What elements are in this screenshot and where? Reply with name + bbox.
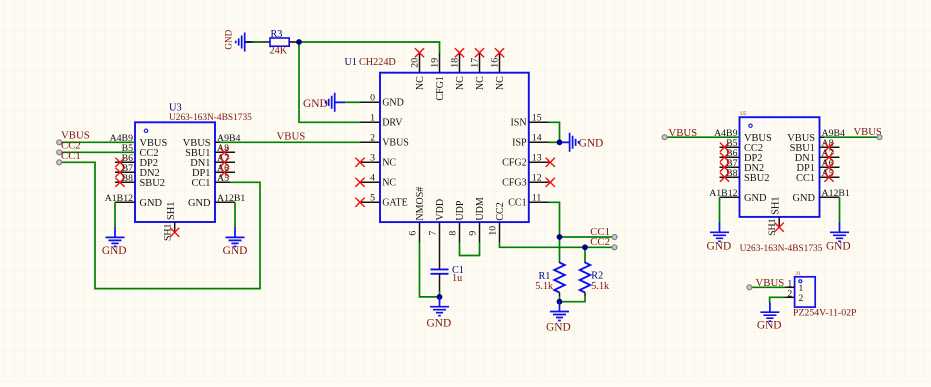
pin B8 SBU2 bbox=[115, 173, 165, 189]
svg-text:NC: NC bbox=[495, 76, 506, 90]
pin A4B9 VBUS bbox=[110, 133, 168, 149]
svg-text:A12B1: A12B1 bbox=[822, 188, 850, 199]
pin 0 GND bbox=[360, 93, 404, 109]
pin 19 CFG1 (top) bbox=[429, 53, 446, 101]
svg-text:VBUS: VBUS bbox=[277, 130, 306, 142]
wire (ISP to ground) bbox=[549, 141, 561, 143]
ground (below C1) bbox=[427, 297, 452, 330]
pin B8 SBU2 bbox=[720, 168, 770, 184]
pin B6 DP2 bbox=[115, 153, 158, 169]
ground (below R1 R2) bbox=[546, 302, 571, 334]
pin A5 CC1 bbox=[796, 168, 840, 184]
ground (U3 right) bbox=[223, 227, 248, 257]
svg-text:A5: A5 bbox=[217, 173, 229, 184]
pin 1 (J1) bbox=[785, 278, 804, 293]
pin 1 DRV bbox=[360, 113, 403, 129]
svg-text:SH1: SH1 bbox=[767, 218, 778, 236]
svg-text:12: 12 bbox=[532, 173, 542, 184]
wire (U5 A12B1 to ground) bbox=[839, 197, 841, 222]
wire (U3 A1B12 to ground) bbox=[114, 202, 116, 227]
svg-text:GATE: GATE bbox=[382, 198, 408, 209]
pin 8 UDP (bottom) bbox=[448, 200, 466, 242]
usb-c connector body U5 bbox=[740, 117, 820, 217]
node VBUS (J1) bbox=[756, 277, 785, 289]
svg-text:R3: R3 bbox=[271, 29, 283, 40]
wire (CC1 to port) bbox=[560, 236, 615, 238]
node VBUS (U5 left) bbox=[668, 127, 697, 139]
ground (U5 left) bbox=[707, 222, 732, 252]
svg-text:DRV: DRV bbox=[382, 118, 403, 129]
svg-text:3: 3 bbox=[370, 153, 375, 164]
svg-text:SBU2: SBU2 bbox=[744, 173, 769, 184]
svg-text:UDM: UDM bbox=[475, 197, 486, 220]
wire (pin 6 to ground node) bbox=[420, 242, 440, 297]
svg-text:GND: GND bbox=[744, 193, 767, 204]
pin A6 DP1 bbox=[192, 163, 235, 179]
pin 20 NC (top) bbox=[409, 48, 426, 90]
svg-text:GND: GND bbox=[826, 240, 851, 252]
svg-text:GND: GND bbox=[224, 29, 234, 49]
svg-text:7: 7 bbox=[428, 231, 439, 236]
wire (ground to pin 0) bbox=[345, 101, 360, 103]
label J1 (tiny) bbox=[796, 272, 801, 277]
svg-text:NC: NC bbox=[415, 76, 426, 90]
pin SH1 shield bbox=[767, 196, 784, 235]
svg-text:U1: U1 bbox=[345, 57, 357, 68]
junction (R1/R2 ground) bbox=[557, 299, 563, 305]
value PZ254V-11-02P bbox=[793, 307, 857, 318]
wire (R2 top lead) bbox=[584, 247, 586, 261]
wire (VBUS to U3) bbox=[57, 140, 135, 145]
wire (ISN to ISP node) bbox=[549, 122, 560, 142]
svg-text:CC2: CC2 bbox=[495, 202, 506, 220]
svg-text:SH1: SH1 bbox=[163, 223, 174, 241]
node CC1 (right) bbox=[590, 226, 617, 240]
svg-text:SH1: SH1 bbox=[166, 202, 177, 220]
svg-text:A12B1: A12B1 bbox=[217, 193, 245, 204]
svg-text:CC1: CC1 bbox=[191, 178, 210, 189]
ground (U5 right) bbox=[826, 222, 851, 252]
svg-text:A1B12: A1B12 bbox=[105, 193, 133, 204]
svg-text:SBU2: SBU2 bbox=[140, 178, 165, 189]
svg-text:NMOS#: NMOS# bbox=[415, 187, 426, 221]
wire (U5 right VBUS to port) bbox=[824, 135, 882, 140]
ground (at U1 pin 0) bbox=[303, 93, 345, 112]
pin A12B1 GND bbox=[188, 193, 245, 209]
svg-text:13: 13 bbox=[532, 153, 542, 164]
pin A7 DN1 bbox=[795, 148, 840, 164]
svg-text:CC1: CC1 bbox=[61, 150, 81, 162]
svg-text:GND: GND bbox=[382, 98, 404, 109]
svg-text:A1B12: A1B12 bbox=[709, 188, 737, 199]
svg-text:0: 0 bbox=[370, 93, 375, 104]
svg-text:1: 1 bbox=[370, 113, 375, 124]
node CC2 (right) bbox=[590, 236, 617, 250]
label C1 bbox=[452, 265, 464, 276]
pin 17 NC (top) bbox=[469, 48, 486, 90]
pin B7 DN2 bbox=[720, 158, 765, 174]
pin B5 CC2 bbox=[720, 138, 764, 154]
value CH224D bbox=[359, 57, 396, 68]
svg-text:2: 2 bbox=[799, 293, 804, 304]
svg-text:GND: GND bbox=[188, 198, 211, 209]
pin A8 SBU1 bbox=[185, 143, 235, 159]
pin 11 CC1 bbox=[508, 193, 549, 209]
ground (ISP, right-pointing) bbox=[560, 133, 604, 152]
pin A7 DN1 bbox=[190, 153, 235, 169]
svg-text:5: 5 bbox=[370, 193, 375, 204]
pin 4 NC bbox=[355, 173, 396, 189]
wire (R3 junction down to DRV) bbox=[299, 42, 360, 122]
svg-text:CC2: CC2 bbox=[590, 236, 610, 248]
wire (VBUS to J1 pin 1) bbox=[747, 285, 785, 290]
svg-text:R2: R2 bbox=[591, 270, 603, 281]
pin B5 CC2 bbox=[115, 143, 159, 159]
svg-text:11: 11 bbox=[532, 193, 542, 204]
node VBUS (left) bbox=[61, 129, 90, 141]
wire (VBUS to U5 left) bbox=[662, 135, 739, 140]
pin 13 CFG2 bbox=[502, 153, 555, 169]
svg-text:ISN: ISN bbox=[510, 118, 526, 129]
wire (U5 A1B12 to ground) bbox=[719, 197, 721, 222]
svg-text:GND: GND bbox=[427, 318, 452, 330]
capacitor C1 bbox=[431, 242, 449, 297]
svg-text:GND: GND bbox=[757, 319, 782, 331]
svg-text:8: 8 bbox=[448, 231, 459, 236]
value 5.1k (R2) bbox=[591, 281, 610, 292]
svg-text:GND: GND bbox=[102, 245, 127, 257]
pin 12 CFG3 bbox=[502, 173, 555, 189]
svg-text:20: 20 bbox=[409, 58, 420, 68]
pin B7 DN2 bbox=[115, 163, 160, 179]
svg-text:CFG1: CFG1 bbox=[435, 76, 446, 100]
svg-text:2: 2 bbox=[787, 288, 792, 299]
svg-text:GND: GND bbox=[792, 193, 815, 204]
wire (CC2 to U3) bbox=[57, 150, 135, 155]
svg-text:16: 16 bbox=[489, 58, 500, 68]
wire (CC1 loop to U3 pin A5) bbox=[57, 160, 260, 289]
resistor R2 bbox=[560, 262, 591, 302]
svg-text:6: 6 bbox=[408, 231, 419, 236]
pin 2 VBUS bbox=[360, 133, 409, 149]
ground (U3 left) bbox=[102, 227, 127, 257]
pin 15 ISN bbox=[510, 113, 548, 129]
node CC2 (left) bbox=[61, 140, 81, 152]
pin A1B12 GND bbox=[105, 193, 163, 209]
svg-text:9: 9 bbox=[468, 231, 479, 236]
pin SH1 shield bbox=[163, 202, 180, 241]
label U5 (tiny) bbox=[740, 112, 747, 117]
pin 18 NC (top) bbox=[449, 48, 466, 90]
pin 9 UDM (bottom) bbox=[468, 197, 486, 242]
wire (VBUS U3 to U1) bbox=[220, 141, 360, 143]
junction (ISN/ISP) bbox=[557, 139, 563, 145]
svg-text:15: 15 bbox=[532, 113, 542, 124]
junction (R3 output node) bbox=[296, 39, 302, 45]
pin 6 NMOS# (bottom) bbox=[408, 187, 426, 242]
wire (pin 11 CC1 down) bbox=[549, 202, 560, 261]
resistor R1 bbox=[554, 262, 565, 302]
pin A12B1 GND bbox=[792, 188, 849, 204]
svg-text:19: 19 bbox=[429, 58, 440, 68]
pin A5 CC1 bbox=[191, 173, 235, 189]
pin A1B12 GND bbox=[709, 188, 767, 204]
svg-text:NC: NC bbox=[382, 158, 396, 169]
svg-text:GND: GND bbox=[140, 198, 163, 209]
label R1 bbox=[539, 271, 551, 282]
svg-text:GND: GND bbox=[707, 240, 732, 252]
pin A6 DP1 bbox=[797, 158, 840, 174]
svg-text:1u: 1u bbox=[452, 273, 462, 284]
junction (CC1/R1) bbox=[557, 234, 563, 240]
wire (U3 A12B1 to ground) bbox=[234, 202, 236, 227]
svg-text:UDP: UDP bbox=[455, 200, 466, 220]
node VBUS (middle) bbox=[277, 130, 306, 142]
usb-c connector body U3 bbox=[135, 122, 215, 222]
svg-text:CH224D: CH224D bbox=[359, 57, 396, 68]
svg-text:SH1: SH1 bbox=[770, 196, 781, 214]
wire (R3 to CFG1) bbox=[299, 42, 440, 53]
svg-text:PZ254V-11-02P: PZ254V-11-02P bbox=[793, 307, 857, 318]
svg-text:5.1k: 5.1k bbox=[591, 281, 610, 292]
svg-text:GND: GND bbox=[303, 98, 328, 110]
svg-text:17: 17 bbox=[469, 58, 480, 68]
pin 14 ISP bbox=[512, 133, 549, 149]
svg-text:18: 18 bbox=[449, 58, 460, 68]
pin A9B4 VBUS bbox=[183, 133, 241, 149]
svg-text:U263-163N-4BS1735: U263-163N-4BS1735 bbox=[740, 244, 823, 254]
svg-text:GND: GND bbox=[579, 137, 604, 149]
pin 3 NC bbox=[355, 153, 396, 169]
junction (C1/ground) bbox=[437, 294, 443, 300]
ground (power symbol, left-pointing, top-left) bbox=[224, 29, 255, 51]
label U1 bbox=[345, 57, 357, 68]
svg-text:GND: GND bbox=[223, 245, 248, 257]
wire (pin 10 CC2 to port) bbox=[500, 242, 615, 247]
svg-text:U263-163N-4BS1735: U263-163N-4BS1735 bbox=[169, 113, 252, 123]
label R3 bbox=[271, 29, 283, 40]
svg-text:5.1k: 5.1k bbox=[535, 281, 554, 292]
resistor R3 bbox=[270, 38, 299, 46]
svg-text:VDD: VDD bbox=[435, 199, 446, 221]
ground (J1) bbox=[757, 302, 782, 331]
pin 5 GATE bbox=[355, 193, 407, 209]
svg-text:GND: GND bbox=[546, 321, 571, 333]
svg-text:NC: NC bbox=[382, 178, 396, 189]
wire (GND to R3) bbox=[246, 41, 271, 43]
svg-text:10: 10 bbox=[488, 226, 499, 236]
svg-text:CFG3: CFG3 bbox=[502, 178, 526, 189]
pin A9B4 VBUS bbox=[787, 128, 845, 144]
svg-text:14: 14 bbox=[532, 133, 542, 144]
wire (UDP-UDM link) bbox=[460, 242, 480, 256]
label U3 bbox=[169, 103, 182, 114]
pin B6 DP2 bbox=[720, 148, 763, 164]
svg-text:CC1: CC1 bbox=[508, 198, 526, 209]
junction (CC2/R2) bbox=[582, 244, 588, 250]
pin 7 VDD (bottom) bbox=[428, 199, 446, 242]
svg-text:CFG2: CFG2 bbox=[502, 158, 526, 169]
connector J1 PZ254V-11-02P body bbox=[795, 277, 816, 307]
value U263-163N-4BS1735 (U3) bbox=[169, 113, 252, 123]
ic U1 CH224D body bbox=[380, 73, 529, 222]
svg-text:24K: 24K bbox=[270, 46, 288, 57]
wire (J1 pin 2 to ground) bbox=[770, 297, 785, 302]
value 5.1k (R1) bbox=[535, 281, 554, 292]
svg-text:NC: NC bbox=[475, 76, 486, 90]
label R2 bbox=[591, 270, 603, 281]
svg-text:VBUS: VBUS bbox=[382, 138, 409, 149]
pin A4B9 VBUS bbox=[714, 128, 772, 144]
svg-text:NC: NC bbox=[455, 76, 466, 90]
node VBUS (U5 right) bbox=[854, 127, 882, 138]
pin 10 CC2 (bottom) bbox=[488, 202, 506, 242]
pin 2 (J1) bbox=[785, 288, 804, 303]
value 1u bbox=[452, 273, 462, 284]
pin 16 NC (top) bbox=[489, 48, 506, 90]
pin A8 SBU1 bbox=[790, 138, 840, 154]
svg-text:2: 2 bbox=[370, 133, 375, 144]
svg-text:CC1: CC1 bbox=[796, 173, 815, 184]
svg-text:4: 4 bbox=[370, 173, 375, 184]
node CC1 (left) bbox=[61, 150, 81, 162]
value 24K bbox=[270, 46, 288, 57]
value U263-163N-4BS1735 (U5) bbox=[740, 244, 823, 254]
svg-text:ISP: ISP bbox=[512, 138, 527, 149]
